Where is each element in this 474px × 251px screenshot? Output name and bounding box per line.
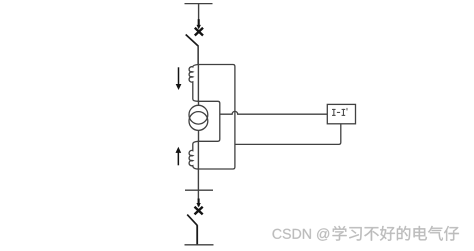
node A (top junction of CT group) bbox=[198, 64, 200, 66]
watermark CJK glyph "的" bbox=[397, 226, 411, 241]
current direction arrow (down) bbox=[176, 67, 182, 90]
disconnector QS2 blade (lower switch) bbox=[187, 215, 197, 226]
current transformer TA1 primary (main line) bbox=[197, 65, 199, 102]
wire loop: inner rectangle node B to node C bbox=[198, 101, 219, 141]
watermark CJK glyph "仔" bbox=[444, 226, 459, 241]
breaker QF1 contact cross X bbox=[195, 28, 203, 36]
busbar W1 (top) bbox=[185, 3, 213, 5]
wire: busbar W1 to breaker QF1 bbox=[198, 4, 200, 20]
current transformer TA2 secondary winding (3 bumps) bbox=[189, 141, 198, 169]
watermark CJK glyph "电" bbox=[414, 226, 427, 240]
current direction arrow (up) bbox=[176, 147, 182, 166]
tap tick W2 (middle horizontal) bbox=[185, 189, 213, 191]
wire: transformer T to node C bbox=[198, 130, 200, 141]
wire: node D to breaker QF2 bbox=[197, 169, 199, 200]
wire loop: outer rectangle node A to node D bbox=[198, 65, 235, 170]
watermark CJK glyph "习" bbox=[349, 227, 362, 240]
wire: QS1 blade to node A bbox=[197, 45, 199, 64]
watermark glyph "S" bbox=[283, 229, 291, 239]
watermark CJK glyph "学" bbox=[333, 226, 347, 241]
watermark CJK glyph "好" bbox=[380, 226, 395, 241]
node C (junction below transformer T) bbox=[198, 140, 200, 142]
breaker QF2 drawout contact shaft bbox=[198, 199, 200, 207]
watermark glyph "C" bbox=[273, 229, 282, 239]
watermark text CSDN @ bbox=[273, 228, 330, 240]
disconnector QS1 blade (upper switch) bbox=[186, 35, 198, 46]
node D (bottom junction of CT group) bbox=[198, 168, 200, 170]
watermark CJK glyph "气" bbox=[428, 226, 443, 241]
wire: QS2 blade to busbar W3 bbox=[196, 225, 198, 245]
breaker QF1 drawout arrowhead (down) bbox=[197, 25, 201, 30]
wire: secondary lead 2 to relay box bottom bbox=[235, 124, 341, 144]
watermark glyph "D" bbox=[293, 229, 301, 239]
breaker QF2 contact cross X bbox=[195, 207, 203, 215]
transformer T lower winding circle bbox=[189, 112, 208, 131]
node B (junction above transformer T) bbox=[198, 100, 200, 102]
watermark text 学习不好的电气仔 bbox=[333, 226, 459, 241]
relay box I-I' bbox=[327, 104, 355, 123]
transformer T upper winding circle bbox=[189, 105, 208, 124]
watermark glyph "N" bbox=[303, 229, 311, 239]
busbar W3 (bottom) bbox=[185, 244, 214, 246]
wire: node B to transformer T bbox=[198, 101, 200, 105]
watermark CJK glyph "不" bbox=[364, 227, 379, 241]
current transformer TA1 secondary winding (3 bumps) bbox=[189, 65, 198, 102]
current transformer TA2 primary (main line) bbox=[197, 141, 199, 169]
breaker QF2 drawout arrowhead (down) bbox=[196, 203, 200, 207]
label I-I' (serif I-beams, hyphen, prime) bbox=[332, 108, 347, 116]
breaker QF1 drawout contact shaft bbox=[198, 19, 200, 27]
watermark glyph "@" bbox=[317, 228, 329, 240]
wire: secondary lead 1 to relay box (crossover hop) bbox=[220, 111, 327, 114]
